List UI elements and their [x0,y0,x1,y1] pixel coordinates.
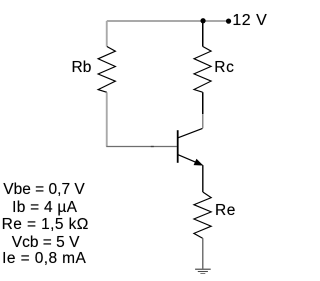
label Rb [72,60,92,76]
resistor Re [194,192,211,238]
label Ie value [2,251,86,267]
transistor Q1 emitter arrowhead [194,159,202,165]
label Re [215,203,236,219]
label Re value [2,217,89,233]
label 12 V [232,13,267,29]
wire Rc top lead [202,21,204,46]
resistor Rc [194,46,211,92]
node junction dot [200,18,205,23]
wire collector vertical [202,114,204,128]
wire Re to ground [202,238,204,268]
ground bar 2 [198,271,208,273]
label Ib value [12,200,77,216]
wire Rc bottom lead [202,92,204,114]
wire top rail [107,20,229,22]
resistor Rb [98,47,115,93]
node 12V terminal dot [226,19,231,24]
transistor Q1 base bar [177,130,179,163]
wire emitter vertical [202,165,204,192]
label Rc [214,60,234,76]
ground bar 1 [195,268,211,270]
label Vbe value [3,182,84,198]
wire left branch lower [106,92,108,146]
node base wire junction tick [151,146,154,148]
transistor Q1 emitter lead [178,155,202,165]
label Vcb value [12,235,80,251]
transistor Q1 collector lead [178,128,202,137]
wire base horizontal [106,146,177,148]
wire left branch upper [106,21,108,47]
ground bar 3 [200,273,205,275]
